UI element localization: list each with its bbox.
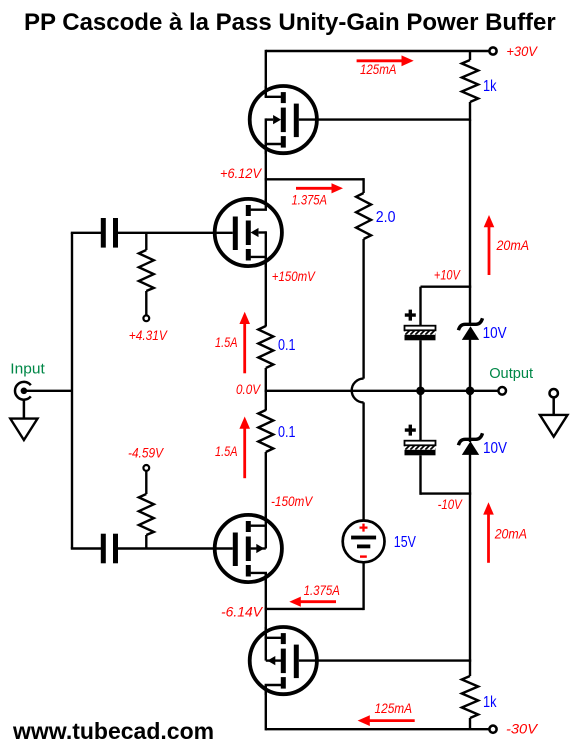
current arrow 1.375A top bbox=[296, 183, 343, 193]
wire hop over output line bbox=[352, 379, 364, 403]
wire cap upper to output node bbox=[419, 340, 421, 440]
wire +10V horizontal bbox=[421, 286, 472, 288]
svg-text:10V: 10V bbox=[483, 440, 508, 457]
capacitor C2 (input lower) bbox=[101, 534, 118, 564]
wire -10V horizontal bbox=[421, 492, 472, 494]
svg-text:15V: 15V bbox=[394, 534, 417, 551]
current arrow 1.5A upper bbox=[239, 312, 250, 374]
resistor 1k bottom bbox=[462, 659, 478, 729]
wire Q2 source down to 0.1 resistor bbox=[265, 257, 267, 327]
svg-text:125mA: 125mA bbox=[375, 701, 413, 716]
current arrow 20mA upper bbox=[484, 215, 495, 275]
terminal output bbox=[498, 387, 506, 395]
capacitor output upper (electrolytic) bbox=[405, 310, 436, 341]
svg-text:+150mV: +150mV bbox=[272, 269, 317, 284]
svg-text:2.0: 2.0 bbox=[376, 209, 396, 226]
svg-text:-10V: -10V bbox=[438, 497, 464, 512]
resistor 0.1 upper bbox=[258, 326, 273, 368]
svg-text:Input: Input bbox=[10, 361, 45, 378]
transistor Q1 (top cascode N-MOSFET) bbox=[250, 86, 317, 154]
wire output horizontal bbox=[265, 390, 499, 392]
svg-text:10V: 10V bbox=[483, 325, 508, 342]
wire right rail lower (zener2 to bottom 1k junction) bbox=[469, 454, 471, 662]
svg-text:Output: Output bbox=[489, 365, 534, 382]
svg-text:+4.31V: +4.31V bbox=[129, 328, 169, 343]
svg-text:+30V: +30V bbox=[506, 44, 538, 59]
wire source junction to 2.0 resistor branch bbox=[265, 178, 364, 180]
svg-text:+6.12V: +6.12V bbox=[220, 166, 263, 181]
wire main vertical: rail to Q1 drain stub bbox=[265, 50, 267, 97]
wire bus to C1 bbox=[71, 232, 101, 234]
wire junction to battery branch bottom bbox=[265, 608, 364, 610]
wire Q1 source down to Q2 drain stub bbox=[265, 144, 267, 210]
transistor Q3 (lower input P-MOSFET) bbox=[215, 515, 282, 583]
wire lower 0.1 to Q3 source stub bbox=[265, 452, 267, 526]
svg-text:0.1: 0.1 bbox=[278, 337, 296, 354]
svg-text:1.5A: 1.5A bbox=[215, 335, 238, 350]
current arrow 125mA top bbox=[357, 55, 414, 66]
resistor bias lower bbox=[139, 471, 154, 549]
ground symbol input bbox=[10, 400, 37, 440]
wire right rail upper (gate junction to zener 1) bbox=[469, 120, 471, 323]
transistor Q4 (bottom cascode P-MOSFET) bbox=[250, 627, 317, 695]
wire left bus vertical bbox=[71, 233, 73, 549]
junction dot output rail bbox=[466, 387, 475, 396]
svg-text:1.375A: 1.375A bbox=[292, 193, 328, 208]
current arrow 1.375A bottom bbox=[289, 597, 336, 607]
wire input to bus bbox=[25, 390, 73, 392]
resistor bias upper bbox=[139, 233, 154, 316]
wire battery to bottom junction bbox=[362, 562, 364, 610]
svg-text:-30V: -30V bbox=[506, 722, 539, 737]
battery 15V bbox=[343, 521, 385, 563]
input jack bbox=[15, 382, 31, 400]
wire bottom rail -30V bbox=[266, 728, 489, 730]
wire Q4 drain to bottom rail bbox=[265, 685, 267, 730]
terminal +4.31V bbox=[143, 315, 149, 321]
svg-text:1k: 1k bbox=[483, 694, 497, 711]
resistor 0.1 lower bbox=[258, 410, 273, 452]
current arrow 125mA bottom bbox=[358, 715, 415, 726]
terminal +30V bbox=[489, 47, 496, 54]
svg-text:20mA: 20mA bbox=[496, 238, 529, 253]
ground symbol right bbox=[540, 389, 568, 437]
svg-text:www.tubecad.com: www.tubecad.com bbox=[12, 718, 214, 744]
svg-text:1.375A: 1.375A bbox=[304, 583, 340, 598]
svg-text:0.1: 0.1 bbox=[278, 424, 296, 441]
resistor 2.0 bbox=[356, 178, 371, 379]
wire battery branch down to battery bbox=[362, 402, 364, 521]
wire Q1 gate to 1k junction bbox=[299, 118, 470, 120]
svg-text:-4.59V: -4.59V bbox=[128, 446, 165, 461]
svg-text:1.5A: 1.5A bbox=[215, 444, 238, 459]
current arrow 20mA lower bbox=[483, 502, 494, 563]
wire Q4 gate to bottom 1k junction bbox=[299, 659, 470, 661]
wire C1 to Q2 gate bbox=[118, 232, 233, 234]
current arrow 1.5A lower bbox=[239, 417, 250, 479]
svg-text:+10V: +10V bbox=[434, 268, 462, 283]
wire C2 to Q3 gate bbox=[118, 547, 233, 549]
wire 0.1 bottom through output node to lower 0.1 bbox=[265, 368, 267, 411]
svg-text:-6.14V: -6.14V bbox=[221, 605, 264, 620]
capacitor output lower (electrolytic) bbox=[405, 425, 436, 456]
wire top rail +30V bbox=[266, 50, 489, 52]
svg-text:-150mV: -150mV bbox=[271, 494, 314, 509]
zener diode 10V lower bbox=[458, 433, 482, 455]
zener diode 10V upper bbox=[458, 318, 482, 340]
wire Q3 drain down to Q4 source stub bbox=[265, 573, 267, 638]
wire bus to C2 bbox=[71, 547, 101, 549]
terminal -4.59V bbox=[143, 465, 149, 471]
wire cap branch upper bbox=[419, 287, 421, 326]
wire cap lower to -10V wire bbox=[419, 455, 421, 495]
wire right rail mid (zener1 to zener2) bbox=[469, 339, 471, 442]
svg-text:0.0V: 0.0V bbox=[236, 382, 262, 397]
resistor 1k top bbox=[462, 51, 478, 121]
capacitor C1 (input upper) bbox=[101, 218, 118, 248]
svg-text:125mA: 125mA bbox=[360, 62, 397, 77]
svg-text:PP Cascode à la Pass Unity-Gai: PP Cascode à la Pass Unity-Gain Power Bu… bbox=[24, 9, 556, 36]
svg-text:1k: 1k bbox=[483, 78, 497, 95]
terminal -30V bbox=[489, 726, 496, 733]
transistor Q2 (upper input N-MOSFET) bbox=[215, 199, 282, 267]
svg-text:20mA: 20mA bbox=[494, 527, 527, 542]
junction dot output cap branch bbox=[416, 387, 425, 396]
